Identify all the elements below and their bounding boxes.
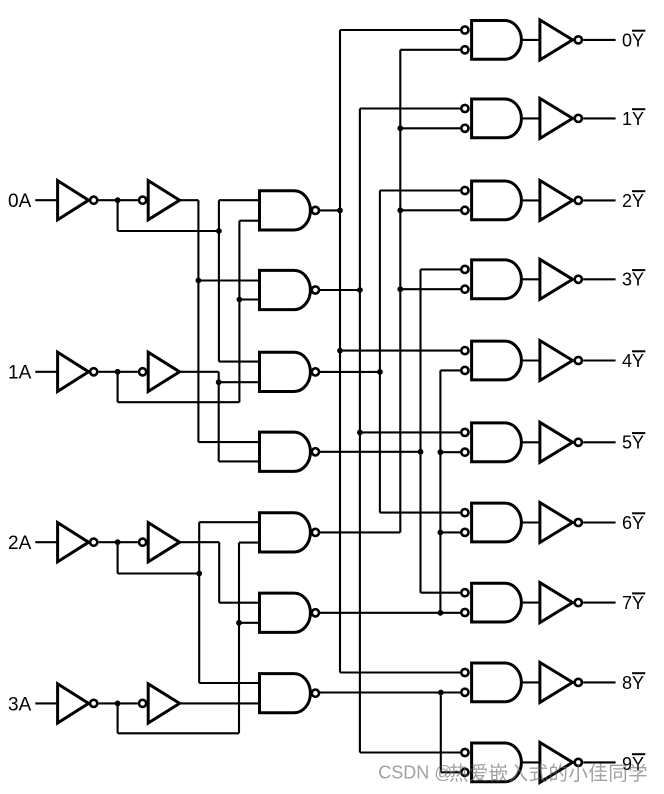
inverter V4 output bubble [575,357,582,364]
inverter V5 triangle [540,422,573,462]
svg-text:学: 学 [628,763,648,785]
node M2 bus junction [357,287,363,293]
inverter U1a output bubble [90,197,97,204]
bus M1 vertical [339,30,341,673]
buffer U1b triangle [148,181,179,220]
wire C riser [218,542,220,603]
inverter V1 triangle [540,98,573,138]
node Y2 bottom junction [397,207,403,213]
svg-text:1Y: 1Y [622,109,644,129]
wire B riser [218,372,220,462]
AND gate G2 body [472,181,522,220]
svg-text:2A: 2A [8,533,32,554]
wire gate Y9 bottom input [441,771,460,773]
wire NAND M2 output [320,289,360,291]
inverter U2a output bubble [90,368,97,375]
wire output 9Y [583,761,615,763]
wire /C drop [117,542,119,573]
wire /D drop [117,703,119,733]
wire gate Y0 bottom input [400,49,460,51]
wire output 5Y [583,441,615,443]
node /1A junction [115,369,121,375]
wire /B to NAND M2 bottom [239,298,259,300]
bus M4 vertical [419,269,421,592]
wire output 6Y [583,521,615,523]
svg-text:7Y: 7Y [622,593,644,613]
wire gate Y9 top input [360,751,460,753]
node M3 bus junction [377,369,383,375]
bus M3 vertical [379,191,381,513]
input label 3A [8,694,32,715]
svg-text:4Y: 4Y [622,351,644,371]
wire G3 to inverter [521,278,540,280]
node M1 bus junction [337,208,343,214]
wire /C to NAND M5 top [199,521,259,523]
inverter V0 output bubble [575,36,582,43]
output label 5Y-bar [622,433,645,453]
wire /D to NAND M6 bottom [239,622,260,624]
wire /A riser [218,200,220,361]
wire A to NAND M4 top [198,441,259,443]
wire G2 to inverter [521,199,540,201]
wire gate Y5 top input [360,431,460,433]
node M4 bus junction [418,449,424,455]
node Y6 bottom junction [438,530,444,536]
bus M6 vertical [439,370,441,612]
wire /C feed [118,572,200,574]
wire /B riser [238,221,240,403]
node M6 bus junction [438,610,444,616]
NAND gate M5 output bubble [312,529,319,536]
svg-text:0A: 0A [8,191,32,212]
wire /B feed [118,401,240,403]
wire /B drop [117,372,119,402]
wire B to NAND M3 bottom [219,381,260,383]
inverter V5 output bubble [575,439,582,446]
watermark CSDN [378,763,647,785]
wire gate Y2 bottom input [400,209,460,211]
node Y3 bottom junction [397,286,403,292]
wire 0A input [35,199,57,201]
inverter U4a output bubble [90,700,97,707]
node Y5 top junction [357,430,363,436]
buffer U2b input bubble [139,368,146,375]
AND gate G9 top input bubble [461,749,468,756]
wire A riser [197,200,199,442]
wire G4 to inverter [521,359,540,361]
AND gate G3 bottom input bubble [461,286,468,293]
wire 0A inverted node [99,199,138,201]
svg-text:爱: 爱 [469,763,489,785]
wire G1 to inverter [521,117,540,119]
node B to NAND M3 junction [216,379,222,385]
NAND gate M5 body [260,513,311,552]
wire output 4Y [583,359,615,361]
wire A to NAND M2 top [198,279,259,281]
inverter V0 triangle [540,20,573,60]
output label 0Y-bar [622,30,645,50]
inverter U3a triangle [58,523,89,562]
wire gate Y7 top input [421,592,461,594]
svg-text:热: 热 [449,763,469,785]
wire G0 to inverter [521,39,540,41]
svg-text:的: 的 [549,763,569,785]
inverter V8 triangle [540,662,573,702]
wire G7 to inverter [521,602,540,604]
NAND gate M2 output bubble [312,286,319,293]
wire NAND M1 output [320,209,340,211]
wire G5 to inverter [521,441,540,443]
output label 1Y-bar [622,109,645,129]
buffer U3b triangle [148,523,179,562]
AND gate G0 body [472,21,522,60]
NAND gate M1 output bubble [312,207,319,214]
wire /A feed [118,230,219,232]
AND gate G1 bottom input bubble [461,125,468,132]
AND gate G7 body [472,583,522,622]
wire gate Y3 bottom input [400,288,460,290]
svg-text:同: 同 [608,763,628,785]
output label 7Y-bar [622,593,645,613]
wire B true from buffer [180,371,219,373]
buffer U1b input bubble [139,197,146,204]
node A to NAND M2 junction [196,278,202,284]
wire 3A input [35,702,57,704]
wire /A to NAND M3 top [219,361,260,363]
wire 2A input [35,541,57,543]
input label 1A [8,363,32,384]
bus M2 vertical [359,109,361,753]
AND gate G9 body [472,743,522,782]
wire output 7Y [583,602,615,604]
wire gate Y1 bottom input [400,127,460,129]
wire gate Y3 top input [421,268,461,270]
wire gate Y0 top input [340,29,460,31]
AND gate G6 bottom input bubble [461,529,468,536]
wire A true from buffer [180,199,199,201]
bus M5 vertical [399,50,401,533]
inverter V7 output bubble [575,599,582,606]
NAND gate M6 body [260,593,311,632]
wire gate Y2 top input [380,189,460,191]
NAND gate M4 body [260,432,311,471]
inverter V2 output bubble [575,197,582,204]
NAND gate M7 body [260,674,311,713]
wire gate Y4 top input [340,350,460,352]
node /A junction [216,228,222,234]
wire D true to NAND M7 bottom [180,702,260,704]
NAND gate M4 output bubble [312,448,319,455]
buffer U4b input bubble [139,700,146,707]
wire output 1Y [583,117,615,119]
output label 9Y-bar [622,754,645,774]
wire 1A inverted node [99,371,138,373]
AND gate G4 top input bubble [461,347,468,354]
wire /D to NAND M5 bottom [239,542,260,544]
svg-text:6Y: 6Y [622,513,644,533]
wire NAND M5 output [320,531,400,533]
NAND gate M7 output bubble [312,690,319,697]
svg-text:3Y: 3Y [622,270,644,290]
wire output 3Y [583,278,615,280]
wire gate Y1 top input [360,107,460,109]
wire gate Y6 bottom input [440,531,460,533]
wire B to NAND M4 bottom [219,460,260,462]
svg-text:2Y: 2Y [622,191,644,211]
AND gate G3 top input bubble [461,266,468,273]
svg-text:0Y: 0Y [622,30,644,50]
inverter U2a triangle [58,352,89,391]
svg-text:佳: 佳 [588,763,608,785]
wire gate Y5 bottom input [440,451,460,453]
inverter U4a triangle [58,684,89,723]
wire C true from buffer [180,541,220,543]
buffer U3b input bubble [139,539,146,546]
AND gate G6 body [472,503,522,542]
svg-text:嵌: 嵌 [489,763,509,785]
AND gate G8 bottom input bubble [461,689,468,696]
wire NAND M3 output [320,371,380,373]
wire output 8Y [583,681,615,683]
node /0A junction [115,197,121,203]
svg-text:小: 小 [568,763,588,785]
wire /D riser [238,543,240,734]
AND gate G2 bottom input bubble [461,207,468,214]
wire /C to NAND M7 top [199,682,259,684]
inverter V7 triangle [540,583,573,623]
AND gate G9 bottom input bubble [461,769,468,776]
inverter V9 triangle [540,742,573,782]
AND gate G2 top input bubble [461,187,468,194]
inverter V2 triangle [540,180,573,220]
wire /C riser [198,522,200,683]
AND gate G4 body [472,341,522,380]
inverter V6 output bubble [575,519,582,526]
svg-text:5Y: 5Y [622,433,644,453]
inverter V3 output bubble [575,276,582,283]
svg-text:CSDN @: CSDN @ [378,763,452,783]
output label 4Y-bar [622,351,645,371]
inverter V3 triangle [540,259,573,299]
AND gate G5 body [472,423,522,462]
wire /A drop [117,200,119,231]
wire /A to NAND M1 top [219,199,260,201]
wire output 0Y [583,39,615,41]
input label 0A [8,191,32,212]
AND gate G8 top input bubble [461,669,468,676]
node /2A junction [115,539,121,545]
NAND gate M3 body [260,352,311,391]
inverter V1 output bubble [575,115,582,122]
output label 2Y-bar [622,191,645,211]
node /B to NAND M2 junction [237,297,243,303]
wire NAND M4 output [320,451,421,453]
wire gate Y8 top input [340,671,460,673]
svg-text:3A: 3A [8,694,32,715]
wire 2A inverted node [99,541,138,543]
wire G6 to inverter [521,521,540,523]
wire gate Y6 top input [380,512,460,514]
wire NAND M7 output [320,691,460,693]
inverter V6 triangle [540,503,573,543]
node M7 bus junction [438,690,444,696]
wire gate Y4 bottom input [440,369,460,371]
wire 1A input [35,371,57,373]
svg-text:8Y: 8Y [622,673,644,693]
svg-text:1A: 1A [8,363,32,384]
svg-text:入: 入 [509,763,529,785]
wire G8 to inverter [521,681,540,683]
AND gate G3 body [472,260,522,299]
input label 2A [8,533,32,554]
NAND gate M3 output bubble [312,368,319,375]
buffer U4b triangle [148,684,179,723]
AND gate G6 top input bubble [461,509,468,516]
AND gate G5 bottom input bubble [461,449,468,456]
inverter U3a output bubble [90,539,97,546]
inverter V4 triangle [540,341,573,381]
output label 6Y-bar [622,513,645,533]
wire G9 to inverter [521,761,540,763]
AND gate G1 body [472,99,522,138]
wire /D feed [118,732,239,734]
NAND gate M6 output bubble [312,609,319,616]
AND gate G5 top input bubble [461,429,468,436]
bus M7 vertical [440,693,442,773]
inverter U1a triangle [58,181,89,220]
wire output 2Y [583,199,615,201]
node /D to NAND M6 junction [236,620,242,626]
AND gate G4 bottom input bubble [461,367,468,374]
NAND gate M2 body [260,270,311,309]
wire NAND M6 output [320,612,460,614]
wire 3A inverted node [99,702,138,704]
svg-text:式: 式 [529,763,549,785]
wire /B to NAND M1 bottom [239,220,259,222]
wire C to NAND M6 top [219,602,259,604]
AND gate G0 bottom input bubble [461,46,468,53]
AND gate G7 bottom input bubble [461,609,468,616]
node /3A junction [115,701,121,707]
AND gate G7 top input bubble [461,589,468,596]
AND gate G1 top input bubble [461,105,468,112]
node Y4 top junction [337,348,343,354]
NAND gate M1 body [260,191,311,230]
AND gate G8 body [472,663,522,702]
inverter V9 output bubble [575,759,582,766]
node Y1 bottom junction [397,125,403,131]
output label 3Y-bar [622,270,645,290]
output label 8Y-bar [622,673,645,693]
buffer U2b triangle [148,352,179,391]
node /C junction [196,571,202,577]
inverter V8 output bubble [575,679,582,686]
node Y5 bottom junction [438,449,444,455]
AND gate G0 top input bubble [461,26,468,33]
